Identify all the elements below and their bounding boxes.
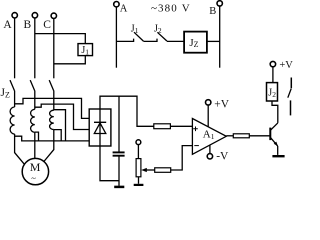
wire J1 top rail from B [35,34,86,44]
contactor contact Jz phase B [30,80,35,91]
wire bottom collector from A [15,136,66,141]
svg-text:JZ: JZ [1,87,10,100]
control terminal A [114,1,128,14]
svg-text:J1: J1 [131,24,139,36]
wire bottom jog B [35,132,39,141]
resistor R2 [155,168,171,173]
wire tap C to rectifier input 3 [54,110,89,141]
svg-text:~380 V: ~380 V [151,3,191,15]
J2 +V terminal [270,60,293,82]
resistor R3 [233,134,249,138]
wire phase A upper [14,18,16,78]
svg-text:A: A [3,19,12,31]
terminal C [43,13,56,31]
wire control left [115,7,117,68]
wire rung to Jz coil [167,40,184,42]
svg-text:B: B [209,6,216,17]
svg-text:+V: +V [214,98,229,110]
wire phase B lower [34,91,36,110]
opamp +V terminal [206,98,230,127]
contact J2 right edge [288,78,292,116]
capacitor C1 [113,96,125,186]
rectifier U1 box [89,109,111,146]
svg-text:A1: A1 [203,129,215,141]
wire phase C upper [53,19,55,79]
svg-text:M: M [30,160,41,174]
contactor contact Jz phase A [10,80,15,91]
ground G1 [114,186,124,189]
svg-text:JZ: JZ [189,37,198,49]
svg-text:B: B [24,19,32,31]
wire rectifier minus to ground node [100,146,119,181]
potentiometer RP terminal [136,140,141,145]
wire phase B to motor [34,132,36,158]
control terminal B [209,1,222,17]
relay coil Jz [184,32,207,53]
motor M1 [22,158,48,184]
wire R2 to opamp minus input [171,146,193,170]
svg-text:~: ~ [31,173,36,183]
relay coil J1 [78,44,93,57]
wire tap B to rectifier input 2 [35,104,89,129]
svg-text:+V: +V [279,60,293,71]
wire rung middle [143,39,157,42]
wire phase A lower [14,91,16,107]
terminal B [24,13,38,31]
wire tap A to rectifier input 1 [15,98,90,118]
wire bottom jog C [54,130,61,141]
svg-text:-V: -V [216,151,229,163]
wire R3 to base [249,135,270,137]
wire opamp output [226,135,233,137]
wire R1 to opamp plus input [170,125,192,127]
wire control right [219,6,221,68]
op-amp A1 [192,119,226,155]
svg-text:C: C [43,19,51,31]
wire phase C to motor [44,130,54,162]
opamp -V terminal [207,145,229,162]
wire collector to J2 [272,101,278,123]
contact J2 [157,32,167,41]
potentiometer RP [136,145,141,184]
svg-text:J1: J1 [81,45,89,57]
relay coil J2 [267,83,278,101]
svg-text:J2: J2 [154,24,162,36]
svg-text:A: A [120,4,128,15]
contactor contact Jz phase C [49,80,54,91]
reactor coil phase B [31,109,35,132]
ground G2 [134,184,144,186]
wiper arrow [141,168,155,172]
resistor R1 [154,124,171,129]
wire phase A to motor [15,134,25,164]
reactor coil phase A [10,107,15,134]
wire phase C lower [53,91,55,111]
svg-text:J2: J2 [268,87,276,99]
ground G3 [272,155,284,157]
wire J1 bottom rail to C [54,56,86,64]
wire phase B upper [34,18,36,78]
wire Jz coil to B [207,40,220,42]
wire emitter to ground [277,146,279,155]
terminal A [3,13,17,31]
contact J1 [134,32,143,41]
reactor coil phase C [50,110,54,129]
transistor Q1 [270,123,278,146]
diode D1 [94,109,106,146]
wire rectifier plus rail [100,96,154,126]
wire rung left [116,39,133,42]
